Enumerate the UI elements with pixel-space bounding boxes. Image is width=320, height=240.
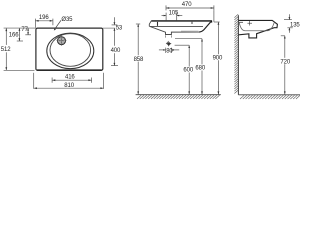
svg-text:470: 470 — [182, 2, 192, 8]
svg-text:512: 512 — [1, 47, 11, 53]
dimension 470 — [166, 2, 214, 22]
dimension 720 — [280, 36, 290, 95]
svg-text:Ø35: Ø35 — [61, 17, 73, 23]
countertop rectangle — [36, 28, 103, 70]
svg-text:196: 196 — [39, 15, 49, 21]
dimension 600 — [175, 45, 194, 94]
drain position star — [166, 41, 172, 47]
deck ledge at wall (side view) — [239, 21, 243, 23]
dimension 810 (bottom overall) — [34, 73, 104, 89]
wall hatch — [234, 14, 238, 93]
dimension 135 — [284, 14, 300, 33]
label Ø35 with leader — [54, 17, 73, 31]
faucet hole tick (front view) — [157, 22, 159, 26]
svg-text:416: 416 — [65, 74, 75, 80]
dimension 166 — [9, 28, 23, 41]
right thick swoosh (bowl to top corner) — [199, 22, 211, 32]
dimension 80 — [159, 49, 179, 55]
svg-text:600: 600 — [183, 68, 193, 74]
extension line top-right (to 53/400) — [103, 27, 118, 29]
dimension 105 — [162, 11, 183, 21]
floor under side view — [238, 95, 300, 99]
dimension 858 — [134, 24, 144, 94]
bowl interior curve (side view) — [239, 23, 274, 31]
svg-text:80: 80 — [166, 49, 173, 55]
second hole tick (front view) — [191, 22, 193, 24]
faucet hole (hatched) — [56, 36, 66, 46]
bowl outer ellipse — [47, 33, 94, 68]
bowl underside with drain stub — [150, 27, 199, 35]
dimension 512 (left overall) — [1, 28, 11, 70]
dimension 416 (bottom inner) — [52, 74, 92, 82]
svg-text:900: 900 — [213, 56, 223, 62]
wall line — [237, 15, 239, 95]
dimension 196 (top) — [35, 15, 53, 27]
extension line bottom-left — [4, 69, 35, 71]
svg-text:680: 680 — [195, 66, 205, 72]
svg-text:858: 858 — [134, 57, 144, 63]
80 extension ticks below drain stub — [166, 35, 172, 53]
dimension 400 — [111, 28, 121, 66]
faucet cross mark (side view) — [247, 21, 252, 26]
extension line top-left — [4, 27, 36, 29]
dimension 77 — [21, 26, 31, 35]
dimension 900 — [213, 22, 223, 94]
svg-text:720: 720 — [280, 60, 290, 66]
basin front lower line — [149, 25, 203, 27]
bowl inner ellipse — [50, 34, 91, 67]
svg-text:400: 400 — [111, 48, 121, 54]
dimension 53 — [112, 17, 123, 31]
basin profile (side) — [239, 20, 278, 38]
floor under front view — [136, 95, 221, 99]
dimension 680 — [175, 39, 206, 95]
svg-text:166: 166 — [9, 32, 19, 38]
svg-text:53: 53 — [116, 26, 123, 32]
basin top edge — [149, 21, 211, 27]
